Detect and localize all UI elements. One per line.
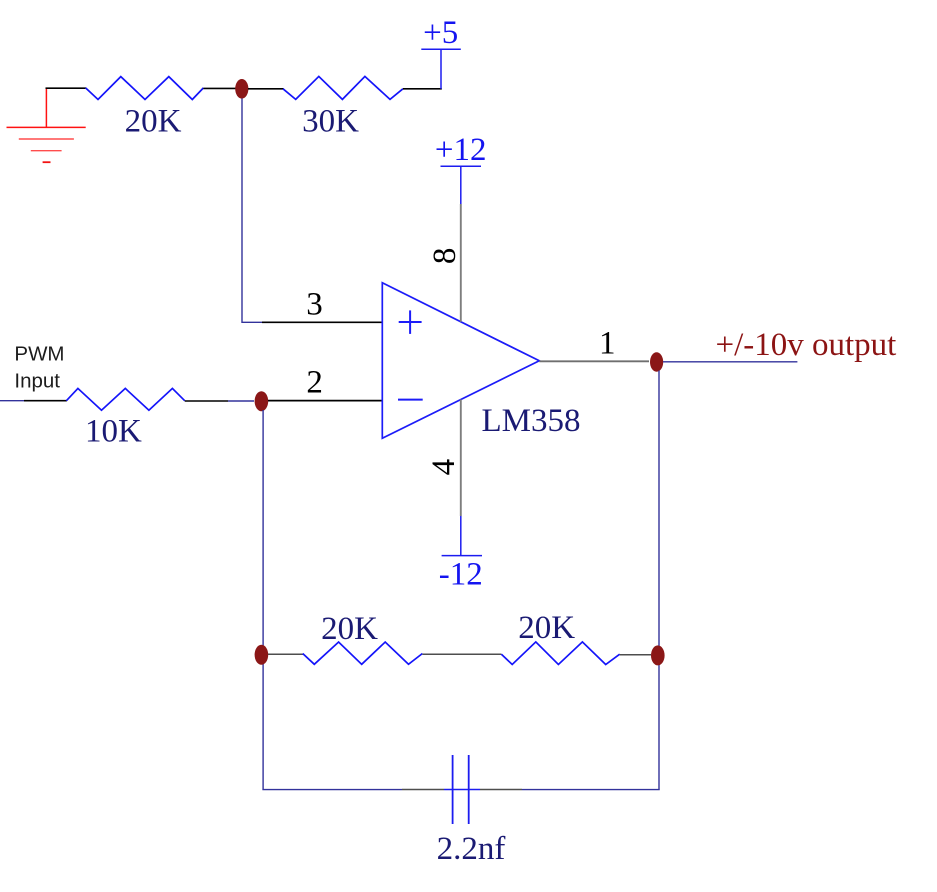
wire pin 4 blue bottom bbox=[460, 516, 462, 556]
power +12 symbol bbox=[441, 165, 482, 167]
svg-text:20K: 20K bbox=[518, 610, 575, 646]
svg-text:PWM: PWM bbox=[14, 342, 64, 365]
wire input left (blue) bbox=[0, 400, 24, 402]
svg-text:-12: -12 bbox=[439, 557, 483, 593]
op-amp plus input marker bbox=[399, 310, 422, 334]
wire output pin 1 bbox=[539, 360, 649, 362]
wire R5 to node E bbox=[620, 654, 651, 656]
wire node A to R2 bbox=[248, 88, 284, 90]
resistor R1 20K bbox=[86, 77, 204, 100]
svg-text:10K: 10K bbox=[85, 413, 142, 449]
resistor R4 20K feedback bbox=[303, 642, 423, 664]
wire bottom gray right of capacitor bbox=[480, 789, 522, 791]
wire ground to R1 bbox=[46, 87, 87, 89]
resistor R2 30K bbox=[283, 76, 403, 99]
ground bbox=[7, 88, 86, 162]
node E feedback-right junction dot bbox=[651, 645, 665, 665]
power +5 symbol bbox=[421, 48, 461, 50]
svg-text:2.2nf: 2.2nf bbox=[437, 831, 506, 867]
wire bottom right segment (blue) bbox=[522, 789, 660, 791]
wire input to R3 bbox=[24, 400, 67, 402]
wire node D to R4 bbox=[268, 653, 303, 655]
wire R1 to node A bbox=[203, 87, 236, 89]
svg-text:+12: +12 bbox=[435, 132, 487, 168]
wire left vertical node B to bottom bbox=[262, 410, 264, 790]
svg-text:3: 3 bbox=[306, 286, 323, 322]
wire capacitor crossing (blue) bbox=[444, 789, 480, 791]
node D feedback-left junction dot bbox=[255, 645, 269, 665]
op-amp U1 LM358 triangle bbox=[382, 283, 539, 438]
svg-text:20K: 20K bbox=[321, 611, 378, 647]
svg-text:2: 2 bbox=[306, 364, 323, 400]
svg-text:4: 4 bbox=[426, 459, 462, 476]
wire +5 vertical bbox=[440, 49, 442, 89]
wire pin 2 bbox=[268, 400, 382, 402]
wire bottom left segment (blue) bbox=[262, 789, 402, 791]
svg-text:+5: +5 bbox=[423, 15, 458, 51]
svg-text:30K: 30K bbox=[302, 103, 359, 139]
svg-text:20K: 20K bbox=[125, 103, 182, 139]
svg-text:+/-10v output: +/-10v output bbox=[716, 327, 897, 363]
op-amp minus input marker bbox=[398, 399, 423, 401]
capacitor C1 plates bbox=[453, 755, 469, 824]
wire pin 4 gray bbox=[460, 400, 462, 517]
node C output junction dot bbox=[650, 352, 663, 372]
svg-text:1: 1 bbox=[599, 326, 616, 362]
resistor R5 20K feedback bbox=[501, 642, 619, 665]
wire right vertical node C to bottom bbox=[658, 371, 660, 790]
wire short blue before node B bbox=[228, 400, 254, 402]
wire node A down to pin 3 bbox=[242, 99, 262, 323]
wire R3 to node B bbox=[185, 400, 228, 402]
power -12 symbol bbox=[442, 555, 482, 557]
svg-text:8: 8 bbox=[427, 248, 463, 265]
node B junction dot bbox=[255, 391, 269, 411]
wire pin 8 blue top bbox=[460, 166, 462, 204]
wire output right (blue) bbox=[663, 361, 797, 363]
svg-text:Input: Input bbox=[14, 370, 60, 393]
svg-text:LM358: LM358 bbox=[482, 403, 581, 439]
wire bottom gray left of capacitor bbox=[402, 789, 444, 791]
wire pin 8 gray bbox=[460, 204, 462, 322]
node A junction dot bbox=[235, 79, 248, 99]
resistor R3 10K bbox=[66, 388, 184, 410]
wire R4 to R5 bbox=[422, 653, 501, 655]
wire R2 to +5 bbox=[403, 88, 442, 90]
wire pin 3 bbox=[262, 321, 382, 323]
